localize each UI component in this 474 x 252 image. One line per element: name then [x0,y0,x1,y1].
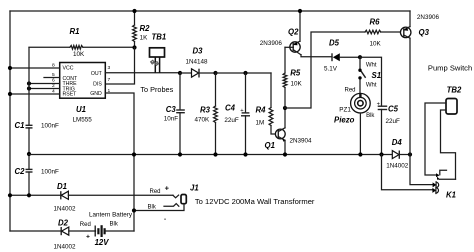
svg-text:VCC: VCC [63,66,74,72]
svg-text:To 12VDC 200Ma Wall Transforme: To 12VDC 200Ma Wall Transformer [195,197,315,206]
svg-text:To Probes: To Probes [140,85,173,94]
svg-text:470K: 470K [195,116,211,123]
svg-text:3: 3 [108,65,111,71]
resistor R5 [283,47,302,108]
svg-text:DIS: DIS [93,81,102,87]
svg-text:1N4002: 1N4002 [386,163,409,170]
svg-text:Lantern Battery: Lantern Battery [89,212,133,219]
svg-text:D2: D2 [58,219,69,228]
wire C2 to supply node [28,172,30,195]
svg-text:R4: R4 [256,106,267,115]
wire pin2 TRIG [29,88,60,90]
svg-text:22uF: 22uF [386,118,401,125]
svg-text:TB2: TB2 [447,86,462,95]
wire pin4 RSET [10,93,60,95]
svg-text:2N3906: 2N3906 [417,14,440,21]
resistor R1 [29,27,135,58]
capacitor C3 [164,73,185,157]
svg-text:10K: 10K [73,51,85,58]
terminal block TB1 [150,33,167,73]
svg-text:Blk: Blk [366,113,375,119]
svg-text:10K: 10K [291,81,303,88]
svg-text:U1: U1 [76,105,86,114]
svg-text:10K: 10K [370,41,382,48]
relay K1 contact [436,170,456,179]
battery 12V lantern battery [80,212,134,248]
junction TRIG timing node [27,86,31,90]
svg-text:Red: Red [80,222,91,228]
svg-text:1M: 1M [256,120,265,127]
svg-text:Wht: Wht [366,83,377,89]
wire pin5 CONT stub [44,77,60,79]
relay K1 coil terminal 2 wire [382,155,433,190]
terminal block TB2 [446,86,462,114]
svg-text:Piezo: Piezo [334,116,355,125]
svg-text:Q3: Q3 [419,28,430,37]
svg-text:OUT: OUT [91,71,103,77]
svg-text:100nF: 100nF [41,123,59,130]
svg-text:Pump Switch: Pump Switch [428,64,472,73]
svg-text:-: - [164,216,166,223]
junction Q1 collector / R5 [283,106,287,110]
relay K1 coil terminal symbols [432,182,438,194]
wire VCC top rail [10,10,410,12]
capacitor C2 [15,167,60,176]
svg-text:12V: 12V [95,238,110,247]
svg-text:1N4002: 1N4002 [54,206,77,213]
svg-text:C4: C4 [225,104,236,113]
relay K1 coil terminal 1 wire [410,155,433,185]
capacitor C1 [15,121,60,130]
svg-text:Wht: Wht [366,63,377,69]
junction RSET to VCC border [8,92,12,96]
svg-text:1K: 1K [140,34,149,41]
svg-text:10nF: 10nF [164,115,179,122]
piezo PZ1 [334,93,375,125]
svg-text:D4: D4 [392,138,403,147]
svg-text:1N4002: 1N4002 [54,244,77,251]
junction C5 / D4 anode [379,152,383,156]
svg-text:R6: R6 [370,18,381,27]
svg-text:7: 7 [108,77,111,83]
transistor Q3 2N3906 [400,11,439,155]
IC U1 LM555 timer [60,63,106,124]
wire pin3 OUT [105,72,180,74]
svg-text:22uF: 22uF [224,117,239,124]
svg-text:RSET: RSET [63,92,78,98]
junction R1/R2/DIS node [132,45,136,49]
wire pin1 GND down [105,93,134,231]
svg-text:R1: R1 [70,27,80,36]
wire TB2 bottom to relay contact NO [441,110,456,179]
wire TB2 top to relay contact common [425,103,446,175]
switch S1 [358,57,381,93]
svg-text:S1: S1 [372,71,382,80]
svg-text:Blk: Blk [110,222,119,228]
svg-text:+: + [165,183,170,192]
diode D1 1N4002 [8,182,173,213]
resistor R4 [256,73,277,134]
wire OUT node to C4/R4 [216,72,272,74]
svg-text:GND: GND [90,91,102,97]
diode D5 zener 5.1V [324,39,360,73]
svg-text:+: + [86,234,90,241]
capacitor C5 [377,102,400,155]
transistor Q1 2N3904 [265,108,313,157]
svg-text:2N3904: 2N3904 [290,138,313,145]
wire S1 node to C5 [360,57,382,106]
svg-text:K1: K1 [446,191,456,200]
svg-text:PZ1: PZ1 [339,106,351,113]
junction THRE timing node [27,81,31,85]
svg-text:LM555: LM555 [73,117,93,124]
wire Q1 collector node to R6 riser [285,32,365,108]
svg-text:Blk: Blk [148,205,157,211]
svg-text:D1: D1 [57,182,67,191]
junction D5 / S1 node [358,55,362,59]
junction D4 cathode / Q3 collector [408,152,412,156]
wire C1 to ground rail [28,128,30,169]
wire node DIS from R2 to pin 7 [105,48,134,85]
svg-text:D3: D3 [193,47,204,56]
svg-text:R5: R5 [290,69,301,78]
svg-text:Q1: Q1 [265,141,275,150]
svg-text:1N4148: 1N4148 [186,59,209,66]
svg-text:TB1: TB1 [152,33,167,42]
junction Blk wire to ground line [132,208,136,212]
wire timing node vertical [28,48,30,126]
transistor Q2 2N3906 [260,11,332,57]
svg-text:D5: D5 [329,39,340,48]
resistor R3 [195,73,218,157]
junction piezo ground [358,152,362,156]
resistor R2 [133,11,151,48]
capacitor C4 [224,71,250,157]
svg-text:Red: Red [150,189,161,195]
junction VCC border pin8 [8,66,12,70]
junction GND rail [132,152,136,156]
diode D3 1N4148 [178,47,218,78]
wire pin8 VCC [10,67,60,69]
resistor R6 [365,18,401,48]
svg-text:6: 6 [52,78,55,84]
svg-text:Q2: Q2 [288,28,299,37]
diode D4 1N4002 [386,138,410,170]
junction Q2 emitter on VCC rail [298,9,302,13]
svg-text:Red: Red [345,88,356,94]
wire pin6 THRE [29,83,60,85]
wire VCC left border [9,11,11,231]
svg-text:100nF: 100nF [41,169,59,176]
junction R2 top on VCC rail [132,9,136,13]
svg-text:R3: R3 [200,106,211,115]
junction ground rail left end [27,152,31,156]
wire piezo to ground rail [359,113,361,155]
svg-text:2N3906: 2N3906 [260,40,283,47]
svg-text:C2: C2 [15,167,26,176]
wire ground rail [29,154,392,156]
svg-text:C1: C1 [15,121,25,130]
svg-text:J1: J1 [190,184,199,193]
svg-text:C5: C5 [388,105,399,114]
svg-text:5.1V: 5.1V [324,66,338,73]
svg-text:C3: C3 [166,105,177,114]
diode D2 1N4002 [10,219,96,251]
svg-text:R2: R2 [140,24,151,33]
connector J1 [134,183,199,223]
